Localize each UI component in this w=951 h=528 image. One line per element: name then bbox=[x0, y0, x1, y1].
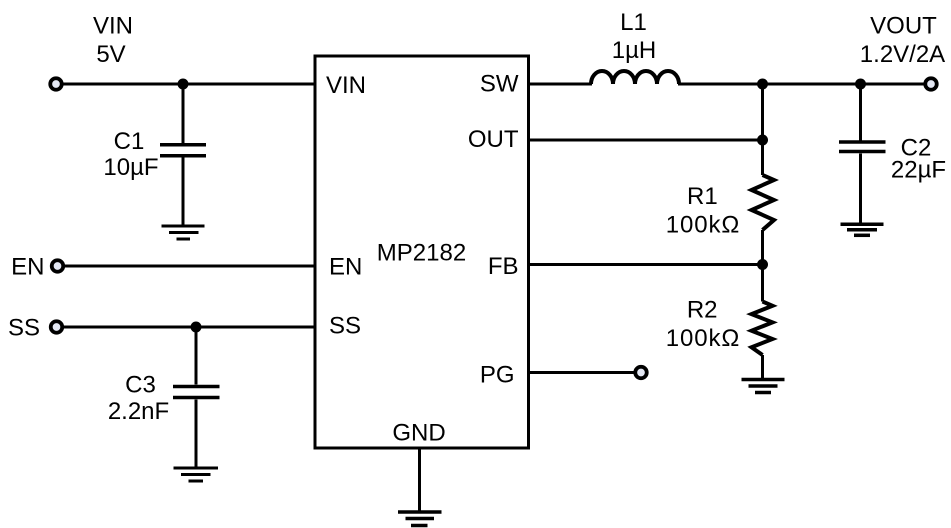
svg-text:OUT: OUT bbox=[468, 126, 519, 153]
svg-text:5V: 5V bbox=[96, 41, 125, 68]
wire FB bbox=[529, 263, 763, 266]
wire SW node down to R1 bbox=[761, 84, 764, 175]
svg-text:10µF: 10µF bbox=[103, 154, 158, 181]
svg-text:SS: SS bbox=[8, 315, 40, 342]
terminal SS bbox=[51, 321, 63, 333]
terminal EN bbox=[52, 260, 64, 272]
svg-text:1.2V/2A: 1.2V/2A bbox=[860, 41, 945, 68]
resistor R1 bbox=[752, 175, 775, 230]
svg-text:R2: R2 bbox=[687, 296, 718, 323]
svg-text:MP2182: MP2182 bbox=[377, 240, 466, 267]
capacitor C3 bbox=[173, 327, 220, 468]
wire SW to L1 bbox=[529, 83, 593, 86]
net label VIN 5V bbox=[93, 13, 133, 69]
wire GND stub bbox=[418, 448, 421, 512]
node SS/C3 junction bbox=[191, 322, 202, 333]
svg-text:PG: PG bbox=[480, 362, 515, 389]
svg-text:EN: EN bbox=[11, 254, 44, 281]
svg-text:GND: GND bbox=[392, 420, 445, 447]
svg-text:C3: C3 bbox=[125, 372, 156, 399]
ground (C2) bbox=[841, 224, 884, 235]
terminal VIN bbox=[50, 78, 62, 90]
svg-text:VOUT: VOUT bbox=[870, 13, 937, 40]
wire OUT bbox=[529, 139, 763, 142]
svg-text:100kΩ: 100kΩ bbox=[666, 325, 740, 352]
resistor R2 bbox=[752, 302, 773, 356]
svg-text:FB: FB bbox=[488, 253, 519, 280]
wire L1 to VOUT bbox=[678, 83, 931, 86]
svg-text:EN: EN bbox=[329, 254, 362, 281]
svg-text:2.2nF: 2.2nF bbox=[108, 398, 169, 425]
inductor L1 bbox=[591, 71, 679, 84]
node OUT/R1 junction bbox=[757, 135, 768, 146]
capacitor C1 bbox=[160, 84, 206, 226]
label C1 10µF bbox=[103, 128, 158, 181]
label C2 22µF bbox=[891, 135, 946, 184]
node SW/R1 junction bbox=[757, 79, 768, 90]
svg-text:100kΩ: 100kΩ bbox=[666, 211, 740, 238]
svg-text:22µF: 22µF bbox=[891, 157, 946, 184]
svg-text:R1: R1 bbox=[687, 183, 718, 210]
wire EN bbox=[65, 265, 314, 268]
node VOUT/C2 junction bbox=[855, 79, 866, 90]
ground (R2) bbox=[742, 380, 785, 393]
svg-text:C1: C1 bbox=[114, 128, 145, 155]
ground (C1) bbox=[162, 226, 205, 239]
svg-text:1µH: 1µH bbox=[612, 37, 657, 64]
wire R1 to FB node bbox=[761, 230, 764, 302]
wire R2 to ground bbox=[761, 355, 764, 380]
node VIN/C1 junction bbox=[178, 79, 189, 90]
svg-text:VIN: VIN bbox=[93, 13, 133, 40]
ground (GND pin) bbox=[398, 512, 442, 526]
label R2 100kΩ bbox=[666, 296, 740, 352]
IC U1 MP2182 box bbox=[315, 56, 529, 448]
svg-text:L1: L1 bbox=[620, 9, 647, 36]
label C3 2.2nF bbox=[108, 372, 169, 426]
wire VIN rail bbox=[64, 83, 315, 86]
wire SS bbox=[64, 326, 314, 329]
net label VOUT 1.2V/2A bbox=[860, 13, 945, 69]
terminal VOUT bbox=[925, 78, 937, 90]
terminal PG bbox=[635, 367, 647, 379]
wire PG bbox=[529, 371, 635, 374]
ground (C3) bbox=[174, 468, 219, 481]
capacitor C2 bbox=[839, 84, 886, 224]
svg-text:VIN: VIN bbox=[326, 72, 366, 99]
label L1 1µH bbox=[612, 9, 657, 64]
svg-text:SW: SW bbox=[480, 71, 519, 98]
node FB junction bbox=[757, 259, 768, 270]
svg-text:SS: SS bbox=[329, 313, 361, 340]
label R1 100kΩ bbox=[666, 183, 740, 239]
